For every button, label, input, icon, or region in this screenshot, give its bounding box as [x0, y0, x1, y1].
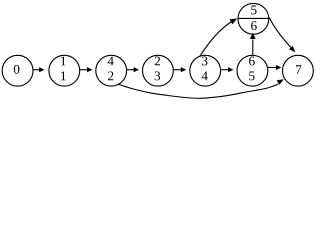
edge 3/4->5/6	[200, 18, 237, 56]
node 1/1	[49, 55, 80, 86]
edge 4/2->2/3	[127, 67, 139, 72]
edge 0->1	[33, 67, 44, 72]
node 3/4	[190, 55, 221, 86]
node 0	[2, 55, 33, 86]
edge 5/6->7	[269, 18, 295, 53]
edge 3/4->6/5	[221, 67, 234, 72]
node 2/3	[143, 55, 174, 86]
edge 1->4/2	[80, 67, 93, 72]
edge 6/5->7	[268, 65, 281, 70]
node 4/2	[96, 55, 127, 86]
edge 4/2->7	[118, 79, 284, 98]
node 5/6	[238, 3, 269, 34]
node 6/5	[237, 55, 268, 86]
edge 6/5->5/6	[250, 33, 256, 55]
edge 2/3->3/4	[174, 67, 187, 72]
node 7	[283, 55, 314, 86]
